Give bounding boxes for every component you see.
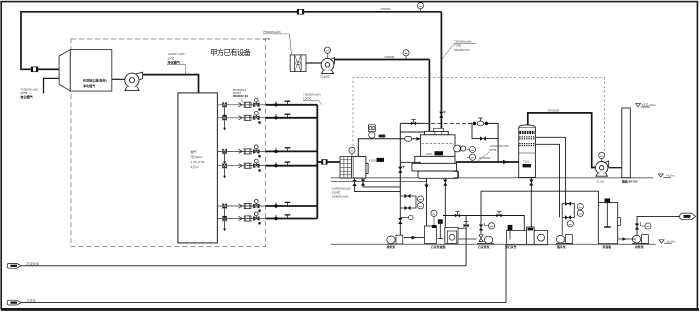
wire row 1 bbox=[217, 104, 265, 106]
svg-text:C102: C102 bbox=[321, 75, 330, 79]
wire: fan outlet to tank top bbox=[143, 75, 199, 93]
svg-text:15℃: 15℃ bbox=[263, 37, 270, 41]
svg-text:X100: X100 bbox=[369, 158, 377, 162]
wire: C102 outlet bbox=[335, 59, 430, 61]
inline blower on feed line bbox=[405, 137, 412, 142]
vent T row 5 bbox=[285, 202, 291, 206]
svg-text:100℃: 100℃ bbox=[303, 96, 312, 100]
control valve cluster on bypass bbox=[473, 118, 488, 126]
valve V3b bbox=[274, 148, 277, 153]
riser from flag line 2 bbox=[505, 244, 507, 302]
vent T row 1 bbox=[285, 101, 291, 105]
svg-text:烟囱 Φ1700: 烟囱 Φ1700 bbox=[622, 179, 638, 184]
drain from X101 to tank A bbox=[426, 178, 428, 226]
svg-text:DN500: DN500 bbox=[381, 7, 391, 11]
wire: standpipe to X101 inlet box bbox=[400, 131, 424, 133]
tower side ports bbox=[535, 137, 565, 203]
standpipe between machines bbox=[399, 123, 401, 196]
stack bbox=[622, 108, 631, 178]
dashed battery-limit box 1 (existing plant) bbox=[71, 39, 266, 247]
instrument circles right of X101 bbox=[469, 146, 475, 152]
valve V1b bbox=[274, 101, 277, 106]
tank B with transfer pump bbox=[445, 228, 458, 244]
bottom heavy border bbox=[1, 308, 699, 311]
valve cluster row 3 bbox=[222, 145, 260, 164]
agitated tank D bbox=[598, 203, 617, 244]
wire: bus to heat exchanger bbox=[317, 161, 340, 163]
instrument stack on feed line bbox=[368, 125, 375, 138]
damper symbol on top line bbox=[297, 9, 304, 14]
heat exchanger / filter before C102 bbox=[290, 55, 306, 72]
svg-text:C101: C101 bbox=[597, 180, 605, 184]
elevation marker grade +6.0m bbox=[658, 174, 671, 177]
svg-text:4万m³: 4万m³ bbox=[191, 165, 199, 169]
elevation marker +0.0m bbox=[659, 240, 672, 243]
svg-text:含尘烟气: 含尘烟气 bbox=[20, 94, 33, 99]
damper on left feed line bbox=[31, 67, 38, 72]
scrubber tower T101 bbox=[519, 125, 536, 178]
valve V5b bbox=[274, 202, 277, 207]
collection bus vertical bbox=[316, 105, 318, 219]
pump P3 with recirc bbox=[556, 235, 573, 244]
svg-text:压力kPa: 压力kPa bbox=[191, 154, 203, 159]
demister band bbox=[519, 132, 535, 134]
feeder box bbox=[527, 227, 535, 245]
wire: fan to stack bbox=[609, 167, 622, 169]
wire row 2 bbox=[217, 117, 265, 119]
vent T row 6 bbox=[285, 215, 291, 219]
vent T row 2 bbox=[285, 114, 291, 118]
svg-text:标高+21m: 标高+21m bbox=[642, 102, 656, 107]
pennant flag right bbox=[679, 213, 695, 220]
svg-text:DN500: DN500 bbox=[385, 55, 395, 59]
valve cluster row 6 bbox=[222, 212, 260, 231]
valve cluster row 1 bbox=[222, 98, 260, 117]
valve V4b bbox=[274, 162, 277, 167]
svg-text:+0.0m: +0.0m bbox=[667, 240, 676, 244]
svg-text:烟气: 烟气 bbox=[191, 149, 197, 154]
hopper / bag filter (existing) bbox=[59, 50, 112, 92]
X100 bottom drains bbox=[355, 178, 401, 192]
wire: standpipe to X101 lower section bbox=[400, 161, 421, 163]
wire row 5 bbox=[217, 205, 265, 207]
agitator bbox=[438, 219, 443, 224]
bypass line over X101 bbox=[400, 123, 498, 162]
packing band 2 bbox=[519, 144, 535, 146]
svg-text:净化烟气: 净化烟气 bbox=[83, 83, 96, 88]
instrument on top line bbox=[417, 3, 423, 9]
svg-text:X101: X101 bbox=[426, 152, 434, 156]
dashed battery-limit box 2 (new unit) bbox=[353, 78, 605, 159]
wire: X101 to tower T101 bbox=[456, 161, 519, 163]
ground line (grade, upper) bbox=[331, 177, 653, 179]
vertical duct 2 (from top line) bbox=[440, 12, 442, 132]
svg-text:75000Nm3/h: 75000Nm3/h bbox=[263, 30, 281, 34]
wire: hopper to fan bbox=[112, 78, 125, 80]
machine X101 (spray absorber) bbox=[412, 128, 459, 178]
svg-text:DN1600: DN1600 bbox=[479, 156, 491, 160]
tower overhead to stack fan bbox=[528, 113, 596, 168]
X101 drain 2 down to tank B through header bbox=[444, 178, 446, 227]
riser to waste line 1 bbox=[465, 216, 467, 266]
vertical duct 1 (from C102 line) bbox=[428, 60, 430, 132]
svg-text:50℃: 50℃ bbox=[490, 148, 497, 152]
svg-text:94230m3/h: 94230m3/h bbox=[454, 48, 470, 52]
label 增湿水 bbox=[379, 135, 386, 138]
wire HX to C102 bbox=[306, 62, 322, 64]
waste water line 1 with pennant bbox=[7, 263, 21, 268]
bypass lower leg bbox=[472, 123, 498, 138]
svg-text:164000m3/h: 164000m3/h bbox=[332, 194, 349, 198]
wire row 6 bbox=[217, 218, 265, 220]
tank A bbox=[425, 226, 437, 243]
svg-text:石灰浆液: 石灰浆液 bbox=[27, 261, 39, 266]
elevation marker top of stack bbox=[636, 104, 650, 107]
valve cluster row 5 bbox=[222, 200, 260, 219]
valve on duct 2 bbox=[439, 112, 443, 118]
machine X100 humidifier bbox=[352, 157, 368, 179]
vent T row 3 bbox=[285, 148, 291, 152]
valve V6b bbox=[274, 215, 277, 220]
P2 suction bbox=[459, 238, 477, 240]
tank C with agitator bbox=[507, 230, 527, 244]
pump P1 bbox=[387, 235, 404, 244]
P5 discharge riser to pennant bbox=[637, 216, 681, 235]
motor at right of X101 bbox=[454, 145, 466, 152]
svg-text:DN450×14: DN450×14 bbox=[233, 94, 248, 98]
X101 water feed line from X100 top bbox=[358, 139, 417, 157]
fan (existing blower) bbox=[125, 72, 143, 90]
wire row 4 bbox=[217, 165, 265, 167]
svg-text:DN1600: DN1600 bbox=[548, 108, 560, 112]
wire row 3 bbox=[217, 150, 265, 152]
waste water line 2 with pennant bbox=[7, 300, 21, 305]
wire: top recirculation line bbox=[21, 12, 441, 70]
valve cluster row 2 bbox=[222, 111, 260, 130]
blower C102 bbox=[321, 58, 334, 74]
svg-text:T101: T101 bbox=[523, 160, 530, 164]
pump P1 discharge bbox=[404, 237, 425, 239]
svg-text:+6.0m: +6.0m bbox=[666, 174, 675, 178]
big storage tank (existing silo) bbox=[178, 93, 218, 243]
skid line under machines bbox=[331, 180, 427, 182]
distribution header bbox=[443, 216, 524, 231]
wire: second hopper inlet bbox=[44, 78, 60, 93]
svg-text:布袋除尘器(既有): 布袋除尘器(既有) bbox=[83, 78, 107, 83]
sample point on standpipe bbox=[400, 217, 409, 219]
svg-text:工艺水: 工艺水 bbox=[27, 298, 37, 303]
pump P2 bbox=[477, 235, 494, 244]
valve cluster row 4 bbox=[222, 159, 260, 178]
pump P2 discharge riser to tank D feed line bbox=[481, 191, 598, 234]
pump P5 bbox=[632, 235, 649, 244]
fan C101 bbox=[596, 161, 609, 176]
valve V2b bbox=[274, 114, 277, 119]
grade line lower bbox=[331, 243, 656, 245]
svg-text:1.78~2.83: 1.78~2.83 bbox=[191, 160, 205, 164]
tower bottom drain bbox=[530, 177, 532, 227]
recirc loop on standpipe bbox=[399, 196, 401, 232]
inlet heat exchanger of humidifier bbox=[340, 157, 352, 179]
packing band 1 bbox=[519, 137, 535, 139]
svg-text:甲方已有设备: 甲方已有设备 bbox=[210, 47, 251, 57]
svg-text:净化烟气: 净化烟气 bbox=[168, 60, 181, 65]
rotary box with circle bbox=[534, 230, 547, 244]
vent T row 4 bbox=[285, 162, 291, 166]
